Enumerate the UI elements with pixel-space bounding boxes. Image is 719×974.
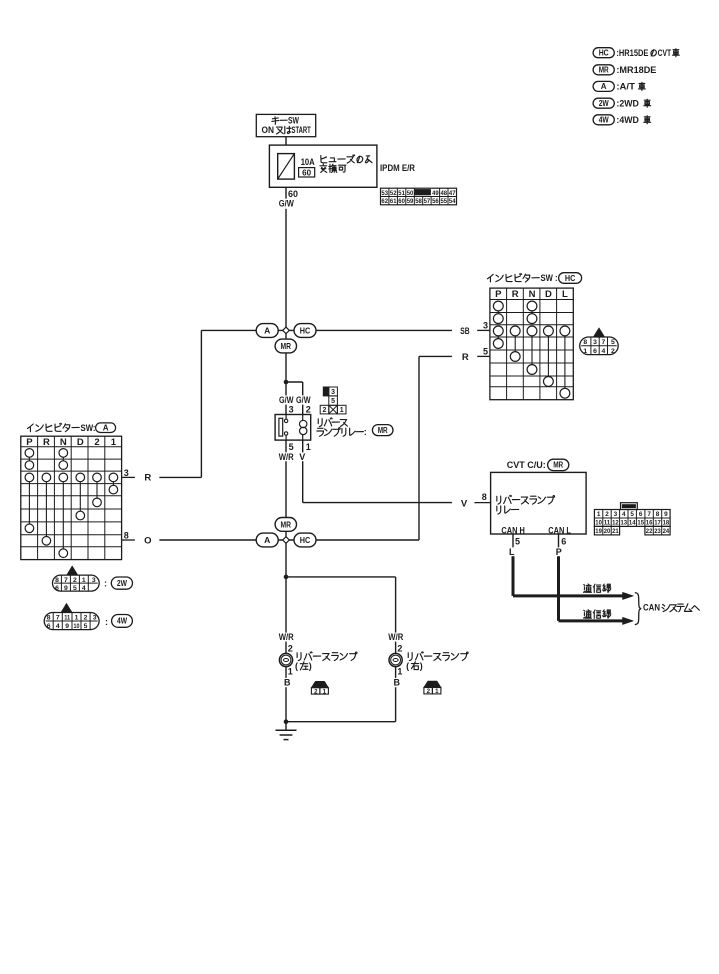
svg-text:D: D <box>77 437 84 448</box>
svg-text:4W: 4W <box>117 617 127 626</box>
svg-text:1: 1 <box>288 667 293 677</box>
svg-text:21: 21 <box>612 528 619 535</box>
svg-text:7: 7 <box>602 339 606 346</box>
svg-text:61: 61 <box>390 198 397 205</box>
svg-text:2: 2 <box>73 577 77 584</box>
svg-text:R: R <box>462 352 469 363</box>
svg-text:(: ( <box>295 661 298 671</box>
svg-text:L: L <box>509 547 515 557</box>
svg-text:V: V <box>461 499 468 510</box>
svg-text:B: B <box>284 678 291 688</box>
svg-text:6: 6 <box>639 511 643 518</box>
svg-text:G/W: G/W <box>279 199 294 209</box>
svg-text:1: 1 <box>323 688 327 695</box>
svg-text:55: 55 <box>441 198 448 205</box>
svg-text:2: 2 <box>306 405 311 415</box>
svg-text:12: 12 <box>612 520 619 527</box>
svg-text:4: 4 <box>82 585 86 592</box>
svg-text:MR: MR <box>281 519 292 529</box>
svg-text:3: 3 <box>124 468 129 478</box>
svg-text:14: 14 <box>629 520 636 527</box>
svg-text:IPDM E/R: IPDM E/R <box>380 163 415 174</box>
svg-text:D: D <box>545 289 552 300</box>
svg-text:9: 9 <box>65 623 69 630</box>
svg-text:1: 1 <box>583 348 587 355</box>
svg-text:4: 4 <box>602 348 606 355</box>
svg-text:7: 7 <box>64 577 68 584</box>
svg-text:23: 23 <box>654 528 661 535</box>
svg-text:6: 6 <box>593 348 597 355</box>
svg-text:2: 2 <box>84 615 88 622</box>
svg-text:P: P <box>495 289 502 300</box>
svg-text::HR15DE: :HR15DE <box>616 48 648 58</box>
svg-text:2W: 2W <box>599 99 609 108</box>
svg-text:59: 59 <box>407 198 414 205</box>
svg-text:6: 6 <box>47 623 51 630</box>
svg-text:A: A <box>264 326 270 336</box>
svg-text:5: 5 <box>73 585 77 592</box>
svg-text:B: B <box>394 678 401 688</box>
svg-text:57: 57 <box>424 198 431 205</box>
svg-text:11: 11 <box>604 520 611 527</box>
svg-text:3: 3 <box>614 511 618 518</box>
svg-text:9: 9 <box>64 585 68 592</box>
svg-text:CVT: CVT <box>658 48 672 58</box>
svg-text:50: 50 <box>407 190 414 197</box>
svg-text:HC: HC <box>599 49 609 58</box>
svg-text:MR: MR <box>553 461 563 470</box>
svg-text:18: 18 <box>663 520 670 527</box>
svg-text::4WD: :4WD <box>616 115 639 125</box>
svg-text:CVT C/U:: CVT C/U: <box>507 460 546 471</box>
svg-text::: : <box>364 427 367 437</box>
svg-text:P: P <box>26 437 33 448</box>
svg-text:5: 5 <box>630 511 634 518</box>
svg-text:4: 4 <box>56 623 60 630</box>
svg-text:8: 8 <box>656 511 660 518</box>
svg-text:7: 7 <box>56 615 60 622</box>
svg-text:CAN L: CAN L <box>548 525 571 535</box>
svg-text:): ) <box>420 661 423 671</box>
svg-text:10: 10 <box>595 520 602 527</box>
svg-text:2: 2 <box>397 643 402 653</box>
svg-text:8: 8 <box>47 615 51 622</box>
svg-text:MR: MR <box>599 66 609 75</box>
svg-text:13: 13 <box>621 520 628 527</box>
svg-text:START: START <box>292 125 312 135</box>
svg-text:2: 2 <box>323 407 327 414</box>
svg-text:2: 2 <box>94 437 99 448</box>
svg-text::: : <box>104 579 107 589</box>
svg-text:HC: HC <box>565 274 576 283</box>
svg-text:A: A <box>601 82 607 91</box>
svg-text:7: 7 <box>647 511 651 518</box>
svg-text:1: 1 <box>397 667 402 677</box>
svg-text:2: 2 <box>427 688 431 695</box>
svg-text:24: 24 <box>663 528 670 535</box>
svg-text:N: N <box>60 437 67 448</box>
svg-text::: : <box>105 617 108 627</box>
svg-text:3: 3 <box>331 389 335 396</box>
svg-text:MR: MR <box>378 426 388 435</box>
svg-text:4: 4 <box>622 511 626 518</box>
svg-text:5: 5 <box>483 347 488 357</box>
svg-text:15: 15 <box>637 520 644 527</box>
svg-text:19: 19 <box>595 528 602 535</box>
svg-text:9: 9 <box>664 511 668 518</box>
svg-text:1: 1 <box>82 577 86 584</box>
svg-text:16: 16 <box>646 520 653 527</box>
svg-text:8: 8 <box>482 492 487 502</box>
svg-text:3: 3 <box>289 405 294 415</box>
svg-text:O: O <box>144 535 151 546</box>
svg-text:10: 10 <box>74 623 80 630</box>
svg-text:49: 49 <box>432 190 439 197</box>
svg-text:CAN: CAN <box>643 603 660 613</box>
svg-text:R: R <box>43 437 50 448</box>
svg-text:1: 1 <box>340 407 344 414</box>
svg-text:3: 3 <box>593 339 597 346</box>
svg-text:A: A <box>264 535 270 545</box>
svg-text:20: 20 <box>604 528 611 535</box>
svg-text:A: A <box>103 424 109 433</box>
svg-text:5: 5 <box>611 339 615 346</box>
svg-text:W/R: W/R <box>279 632 295 642</box>
svg-text:1: 1 <box>306 442 311 452</box>
svg-text:48: 48 <box>441 190 448 197</box>
svg-text:SW :: SW : <box>541 273 558 283</box>
svg-text:HC: HC <box>300 535 311 545</box>
svg-text:5: 5 <box>331 398 335 405</box>
svg-text:V: V <box>299 452 305 462</box>
svg-text:51: 51 <box>398 190 405 197</box>
svg-text:5: 5 <box>84 623 88 630</box>
svg-text:5: 5 <box>289 442 294 452</box>
svg-text:(: ( <box>406 661 409 671</box>
svg-text:52: 52 <box>390 190 397 197</box>
svg-text:8: 8 <box>55 577 59 584</box>
svg-text:HC: HC <box>300 326 311 336</box>
svg-text:60: 60 <box>398 198 405 205</box>
svg-text:1: 1 <box>597 511 601 518</box>
svg-text:2W: 2W <box>117 579 127 588</box>
svg-text:22: 22 <box>646 528 653 535</box>
svg-text:2: 2 <box>605 511 609 518</box>
svg-text:4W: 4W <box>599 116 609 125</box>
svg-text:11: 11 <box>64 615 70 622</box>
svg-text:1: 1 <box>111 437 117 448</box>
svg-text:W/R: W/R <box>279 452 295 462</box>
svg-text:58: 58 <box>415 198 422 205</box>
svg-text:SB: SB <box>460 326 469 337</box>
svg-text::2WD: :2WD <box>616 98 639 108</box>
svg-text:N: N <box>529 289 536 300</box>
svg-text::A/T: :A/T <box>616 82 635 92</box>
svg-text:8: 8 <box>583 339 587 346</box>
svg-text:3: 3 <box>483 320 488 330</box>
svg-text:2: 2 <box>288 643 293 653</box>
svg-text:6: 6 <box>55 585 59 592</box>
svg-text:2: 2 <box>611 348 615 355</box>
svg-text:1: 1 <box>435 688 439 695</box>
svg-text:2: 2 <box>314 688 318 695</box>
svg-text:53: 53 <box>381 190 388 197</box>
svg-text:CAN H: CAN H <box>501 525 524 535</box>
svg-text:R: R <box>144 473 151 484</box>
svg-text:47: 47 <box>449 190 456 197</box>
svg-text:): ) <box>309 661 312 671</box>
svg-text:17: 17 <box>654 520 661 527</box>
svg-text:60: 60 <box>288 189 298 199</box>
svg-text:8: 8 <box>124 530 129 540</box>
svg-text:3: 3 <box>92 577 96 584</box>
svg-text:62: 62 <box>381 198 388 205</box>
svg-text:5: 5 <box>515 537 520 547</box>
svg-text:ON: ON <box>262 125 275 135</box>
svg-text:56: 56 <box>432 198 439 205</box>
svg-text:L: L <box>562 289 568 300</box>
svg-text:MR: MR <box>281 341 292 351</box>
svg-text:1: 1 <box>75 615 79 622</box>
svg-text:W/R: W/R <box>388 632 404 642</box>
svg-text:3: 3 <box>93 615 97 622</box>
svg-text:6: 6 <box>561 537 566 547</box>
svg-text:SW:: SW: <box>81 423 96 433</box>
svg-text:R: R <box>512 289 519 300</box>
svg-text:10A: 10A <box>301 157 315 167</box>
svg-text:54: 54 <box>449 198 456 205</box>
svg-text:P: P <box>556 547 562 557</box>
svg-text::MR18DE: :MR18DE <box>616 65 656 75</box>
svg-text:60: 60 <box>302 167 311 177</box>
